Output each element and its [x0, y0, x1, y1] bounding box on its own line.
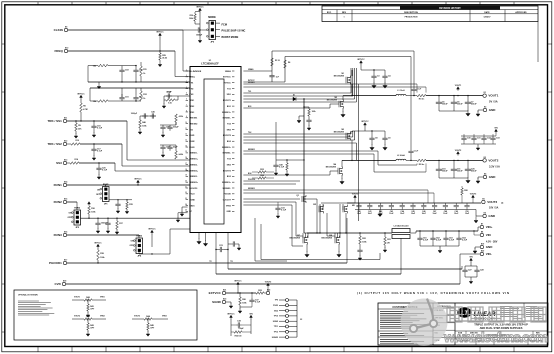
ground ss1 cap — [92, 133, 96, 138]
svg-text:E21: E21 — [223, 289, 226, 291]
svg-text:C9: C9 — [388, 137, 390, 139]
svg-text:R43: R43 — [90, 324, 94, 327]
svg-text:SGND: SGND — [212, 300, 222, 304]
svg-text:VOUT3: VOUT3 — [134, 316, 140, 318]
svg-text:C46: C46 — [166, 125, 170, 128]
svg-text:BSC0902NS: BSC0902NS — [327, 100, 338, 102]
capacitor cluster fb1 — [140, 115, 156, 117]
terminal E22 extvcc aux — [266, 291, 269, 294]
wire q1 to fets — [306, 198, 317, 200]
svg-text:PULSE SKIP / SYNC: PULSE SKIP / SYNC — [222, 30, 246, 33]
connector J1 pins — [286, 299, 289, 302]
svg-text:INTVCC: INTVCC — [357, 59, 365, 61]
svg-text:ECO: ECO — [327, 12, 332, 14]
svg-text:(1) OUTPUT 10V ONLY WHEN VIN >: (1) OUTPUT 10V ONLY WHEN VIN > 10V, OTHE… — [357, 291, 509, 295]
rail vbias riser 2 — [284, 57, 286, 83]
damp resistor R21 — [384, 232, 385, 233]
ground M7 — [306, 244, 308, 252]
svg-text:GND: GND — [488, 214, 496, 218]
terminal EXTVCC — [222, 291, 225, 294]
svg-text:VFB3: VFB3 — [162, 316, 167, 318]
jumper JP4 RUN3 — [136, 238, 143, 254]
ground vin caps — [439, 246, 441, 248]
resistor R22 ch3 — [359, 232, 360, 233]
resistor R11 ITH1 — [140, 66, 143, 76]
resistor R5 ss1 pullup — [80, 99, 82, 103]
svg-text:INTVCC: INTVCC — [196, 6, 204, 8]
svg-text:2.2uF: 2.2uF — [436, 240, 442, 242]
svg-text:INTVCC: INTVCC — [148, 228, 156, 230]
capacitor C23 under ic — [215, 249, 216, 250]
svg-text:TP11: TP11 — [274, 326, 278, 328]
capacitor C27 emi — [464, 266, 466, 268]
svg-text:LTC3859ALEF: LTC3859ALEF — [201, 61, 219, 65]
resistor R9 ss1 — [75, 120, 76, 121]
wire ch3 ic lines — [243, 180, 300, 182]
resistor R24 ch3 aux — [258, 177, 266, 180]
resistor R14 ss3 series — [67, 162, 70, 164]
svg-text:C33: C33 — [496, 137, 500, 139]
wire ss2 jog — [121, 144, 123, 166]
capacitor C18 ITH1 — [121, 66, 123, 68]
svg-text:BOOST2: BOOST2 — [223, 135, 231, 137]
ground at terminal out1 — [478, 109, 483, 111]
capacitor C22 run2 — [97, 218, 98, 219]
net flag vfb row — [495, 129, 498, 133]
svg-text:TG3: TG3 — [227, 159, 231, 161]
svg-text:12/04/17: 12/04/17 — [484, 16, 491, 19]
svg-text:TRK/SS1: TRK/SS1 — [189, 118, 198, 120]
transistor M1 BSC0902NS — [346, 76, 350, 85]
net flag intvcc ch2 — [364, 123, 367, 127]
ground ic pin 38 — [205, 237, 207, 241]
svg-text:BSC0902NS: BSC0902NS — [321, 238, 332, 240]
resistor R12 ITH2 — [140, 91, 143, 101]
ground M8 — [338, 244, 340, 252]
sense resistor R1 ch1 — [417, 94, 426, 97]
terminal FREQ — [64, 49, 67, 52]
svg-text:BOOST3: BOOST3 — [223, 170, 231, 172]
terminal VIN — [480, 233, 483, 236]
net flag VOUT1 — [457, 95, 458, 96]
svg-text:BSC0902NS: BSC0902NS — [326, 167, 337, 169]
terminal GND vin — [480, 245, 483, 248]
wire vin- to cvd rail — [460, 253, 480, 255]
svg-text:0.1uF: 0.1uF — [102, 170, 108, 172]
svg-text:SENSE3-: SENSE3- — [223, 188, 232, 190]
svg-text:TP10: TP10 — [274, 316, 278, 318]
svg-text:R9: R9 — [78, 125, 80, 127]
capacitor C38 100pF — [231, 324, 236, 326]
title block outline — [378, 303, 548, 345]
svg-text:17: 17 — [185, 163, 187, 165]
ground intvcc caps — [230, 334, 232, 336]
svg-text:C27: C27 — [468, 269, 472, 271]
svg-text:0.1uF: 0.1uF — [281, 210, 287, 212]
terminal SS3 — [63, 161, 66, 164]
sense wires ch2 — [243, 150, 378, 152]
svg-text:SENSE2: SENSE2 — [248, 149, 255, 151]
svg-text:R30: R30 — [190, 15, 193, 17]
terminal GND out2 — [483, 175, 486, 178]
wire out1 gnd rail — [439, 110, 468, 112]
svg-text:SGND2: SGND2 — [272, 337, 278, 339]
size dwg rev row — [455, 330, 548, 332]
terminal CLKIN — [64, 28, 67, 31]
optional circuits box — [14, 290, 197, 340]
wire CLKIN drop to PLLIN pin — [182, 30, 184, 71]
rail2 boost drop — [410, 57, 412, 151]
gate verticals ch3b — [339, 204, 341, 233]
svg-text:BSC0902NS: BSC0902NS — [289, 238, 300, 240]
wire ic bottom left rail — [215, 237, 217, 274]
svg-text:R36 100: R36 100 — [235, 336, 242, 338]
svg-text:www.elecfans.com: www.elecfans.com — [443, 329, 548, 345]
svg-text:INTVCC: INTVCC — [134, 178, 142, 180]
svg-text:SW3: SW3 — [227, 164, 231, 166]
svg-text:2.2uF: 2.2uF — [449, 240, 455, 242]
wire ch1 output — [426, 95, 483, 97]
svg-text:RUN2: RUN2 — [54, 200, 62, 204]
transistor M4 ch2 bottom — [338, 167, 342, 176]
resistor R16 run2 — [88, 218, 89, 219]
capacitor C7 out1 — [467, 95, 468, 96]
svg-text:R46: R46 — [142, 121, 146, 124]
terminal CVD — [62, 282, 65, 285]
vin input rail — [416, 230, 478, 232]
transistor M7 ch3 bottom a — [303, 236, 307, 245]
capacitor C33 mid — [275, 206, 280, 212]
resistor R3 rail — [271, 58, 274, 66]
svg-text:0.1uF: 0.1uF — [417, 88, 421, 90]
svg-text:VBIAS: VBIAS — [225, 70, 232, 73]
svg-text:E15: E15 — [64, 198, 67, 200]
wire RUN1 — [67, 184, 190, 186]
svg-text:FREQ: FREQ — [54, 49, 63, 53]
terminal VOUT3 — [482, 200, 485, 203]
svg-text:330uF: 330uF — [471, 171, 477, 173]
wire TRK/SS1 — [67, 120, 127, 122]
svg-text:15: 15 — [185, 151, 187, 153]
wire VIN bus vertical — [303, 99, 305, 233]
wire CVD long — [66, 283, 460, 285]
svg-text:TG1: TG1 — [248, 91, 251, 93]
terminal RUN3 — [63, 233, 66, 236]
svg-text:E23: E23 — [223, 298, 226, 300]
resistor R18 pgood pullup — [97, 262, 98, 263]
svg-text:GND1: GND1 — [189, 205, 195, 207]
svg-text:VOUT3: VOUT3 — [352, 193, 358, 195]
resistor R26 extvcc div — [239, 292, 240, 293]
wire L2 to sense — [406, 159, 417, 161]
terminal GND out1 — [483, 108, 486, 111]
terminal VOUT1 — [483, 94, 486, 97]
watermark text line1 — [447, 307, 462, 322]
wire FREQ — [68, 50, 175, 52]
svg-text:E3: E3 — [484, 157, 486, 159]
svg-text:E17: E17 — [64, 259, 67, 261]
ground bus arrow — [299, 115, 304, 117]
wire ch3 out rail to caps — [347, 202, 481, 204]
capacitor C3 ch1 — [373, 69, 374, 70]
svg-text:PRODUCTION: PRODUCTION — [405, 17, 418, 19]
svg-text:23: 23 — [185, 198, 187, 200]
svg-text:PGOOD: PGOOD — [224, 194, 232, 196]
svg-text:TP12: TP12 — [274, 332, 278, 334]
resistor R29 36.5k on FREQ — [159, 50, 160, 51]
terminal PGOOD1 — [63, 261, 66, 264]
svg-text:J2: J2 — [300, 319, 302, 321]
capacitor C39 on bus — [308, 116, 310, 118]
svg-text:SS3: SS3 — [56, 161, 62, 165]
capacitor C9 ch2 — [384, 131, 386, 136]
wire cap to jumper — [202, 29, 209, 31]
ground at terminal out2 — [478, 176, 483, 178]
rail1 boost drop — [413, 51, 415, 88]
wire TG2 gate lines ch2 — [243, 133, 351, 135]
net flag vout3 right — [472, 195, 475, 199]
svg-text:VIN: VIN — [486, 233, 491, 237]
svg-text:L3 XAL1010-223: L3 XAL1010-223 — [394, 225, 409, 228]
svg-text:470pF: 470pF — [166, 90, 172, 93]
svg-text:SENSE3-: SENSE3- — [189, 176, 198, 178]
capacitor C13 ITH2 — [133, 95, 138, 101]
svg-text:SENSE1-: SENSE1- — [223, 118, 232, 120]
ground ic pin 37 — [198, 237, 200, 239]
wire VBIAS pin — [243, 70, 272, 72]
optional note text — [18, 300, 39, 302]
svg-text:1000pF: 1000pF — [131, 113, 138, 115]
capacitor C25 out2 — [467, 160, 468, 161]
svg-text:M6: M6 — [352, 205, 355, 207]
inductor L3 XAL1010 box — [392, 229, 410, 233]
sense wires ch3 — [243, 189, 428, 191]
svg-text:BG1: BG1 — [248, 106, 252, 108]
net flag pgood pullup INTVCC — [97, 244, 100, 248]
wire run1 parts stub — [109, 199, 132, 201]
svg-text:DATE: DATE — [484, 11, 490, 14]
svg-text:PGOOD3: PGOOD3 — [248, 179, 255, 181]
svg-text:TP2: TP2 — [230, 261, 233, 263]
wire sw3 node — [307, 232, 392, 234]
svg-text:R3 10: R3 10 — [275, 60, 280, 62]
wire rail B rise — [400, 238, 402, 274]
IC U1 left pins — [186, 70, 188, 72]
IC U1 exposed pad — [204, 79, 224, 224]
svg-text:TG2: TG2 — [227, 123, 231, 125]
title separator — [455, 320, 548, 322]
ground ss3 cap — [97, 175, 101, 180]
svg-text:SENSE3: SENSE3 — [248, 188, 255, 190]
svg-text:EXTVCC: EXTVCC — [223, 77, 231, 79]
svg-text:SENSE2-: SENSE2- — [189, 164, 198, 166]
svg-text:RUN3: RUN3 — [136, 236, 143, 238]
wire BG1 to M2 — [243, 107, 330, 109]
svg-text:PGOOD1: PGOOD1 — [49, 261, 62, 265]
svg-text:INTVCC: INTVCC — [224, 83, 232, 85]
wire extvcc — [226, 292, 256, 294]
wire bottom rail A — [228, 268, 462, 270]
svg-text:RUN1: RUN1 — [189, 135, 195, 137]
svg-text:TRK/SS2: TRK/SS2 — [189, 123, 197, 125]
wire out2 gnd rail — [439, 177, 468, 179]
svg-text:100uF: 100uF — [457, 171, 463, 173]
wire SW2 node — [342, 159, 396, 161]
capacitor C5 out1 — [438, 95, 439, 96]
net INTVCC flag top — [199, 8, 202, 12]
svg-text:25: 25 — [185, 210, 187, 212]
svg-text:R16: R16 — [91, 208, 95, 210]
resistor R30 100k — [194, 14, 197, 21]
svg-text:E10: E10 — [65, 47, 68, 49]
customer notice cell — [432, 303, 434, 345]
svg-text:4.5V - 38V: 4.5V - 38V — [486, 240, 498, 243]
svg-text:12: 12 — [185, 134, 187, 136]
svg-text:TP1: TP1 — [209, 261, 212, 263]
svg-text:RUN3: RUN3 — [189, 147, 194, 149]
net flag run3 pullup — [151, 230, 154, 234]
svg-text:16: 16 — [185, 157, 187, 159]
ground ITH3 — [163, 100, 165, 104]
svg-text:INTVCC: INTVCC — [227, 313, 235, 315]
M7 gate bundle — [302, 233, 304, 238]
svg-text:RUN1: RUN1 — [54, 183, 62, 187]
terminal RUN2 — [63, 200, 66, 203]
svg-text:VOUT3: VOUT3 — [470, 193, 476, 195]
svg-text:FREQ: FREQ — [189, 77, 195, 79]
ground vfb row — [477, 144, 479, 146]
svg-text:RUN3: RUN3 — [54, 233, 62, 237]
LT logo — [457, 307, 496, 320]
wire ITH2 bus — [90, 87, 190, 89]
svg-text:E19: E19 — [481, 243, 484, 245]
ground mode cluster — [199, 30, 201, 38]
svg-text:VOUT2: VOUT2 — [265, 281, 271, 283]
frame zone ticks — [37, 2, 39, 5]
svg-text:E5: E5 — [482, 198, 484, 200]
terminal TRK/SS2 — [63, 142, 66, 145]
transistor M2 ch1 bottom — [339, 100, 343, 109]
capacitor C11 out2 — [453, 160, 454, 161]
svg-text:TG2: TG2 — [248, 132, 251, 134]
svg-text:ITH3: ITH3 — [189, 94, 193, 96]
resistor R17 run2 — [116, 218, 117, 219]
capacitor row vfb2 — [461, 135, 496, 137]
jumper JP1 RUN1 — [103, 187, 110, 202]
wire CLKIN to cap — [183, 29, 196, 31]
wire PGOOD1 — [67, 262, 347, 264]
svg-text:GND: GND — [226, 211, 231, 213]
svg-text:GND: GND — [489, 108, 497, 112]
resistor R20 vfb3 — [461, 188, 464, 195]
svg-text:100k: 100k — [312, 111, 316, 113]
svg-text:SENSE1+: SENSE1+ — [189, 159, 199, 161]
capacitor C4 ch1 — [384, 70, 386, 74]
capacitor C17 ss2 — [93, 143, 94, 144]
svg-text:VFB3: VFB3 — [189, 112, 194, 114]
svg-text:E9: E9 — [65, 26, 67, 28]
wire vout3 bottom rail — [355, 209, 476, 211]
svg-text:SENSE1-: SENSE1- — [189, 153, 198, 155]
svg-text:R4: R4 — [288, 61, 290, 64]
scale date sheet row — [455, 337, 548, 339]
svg-text:VOUT2: VOUT2 — [488, 159, 498, 163]
capacitor C32 run2 — [107, 218, 108, 219]
svg-text:R17: R17 — [119, 223, 123, 225]
resistor R10 ss2 series — [67, 143, 71, 145]
ground ITH bus left — [87, 66, 89, 82]
net flag intvcc ch1 — [360, 61, 363, 65]
net flag VOUT2 — [457, 160, 458, 161]
capacitor cluster fb2 — [160, 124, 176, 126]
IC U1 bottom pins — [198, 233, 200, 238]
svg-text:ITH2: ITH2 — [189, 88, 193, 90]
svg-text:MODE: MODE — [208, 16, 216, 19]
svg-text:10: 10 — [185, 122, 187, 124]
capacitor C26 ch3 — [357, 248, 362, 254]
resistor R23 ch3 aux — [258, 171, 266, 174]
svg-text:FCM: FCM — [222, 23, 227, 26]
svg-text:E2: E2 — [484, 106, 486, 108]
rail intvcc riser — [271, 51, 273, 71]
svg-text:2.2uF: 2.2uF — [423, 240, 429, 242]
svg-text:INTVCC: INTVCC — [77, 93, 85, 95]
wire ch3 gates — [243, 198, 300, 200]
capacitor C37 extvcc — [251, 292, 252, 293]
ground sgnd — [226, 301, 231, 303]
capacitor C12 ITH1 hf — [135, 66, 137, 68]
wire vin bus to ch3 — [304, 232, 320, 234]
terminal RUN1 — [63, 183, 66, 186]
capacitor C6 out1 — [453, 95, 454, 96]
sense wires ch1 — [243, 83, 417, 85]
svg-text:0.1uF: 0.1uF — [414, 150, 418, 152]
svg-text:EXTVCC: EXTVCC — [209, 291, 222, 295]
svg-text:SGND: SGND — [273, 321, 279, 323]
svg-text:BSC0902NS: BSC0902NS — [334, 76, 345, 78]
wire M1 drain — [351, 70, 353, 76]
wire ic bottom right rail — [227, 237, 229, 269]
ground ic left aux 1 — [182, 206, 188, 208]
wire rail A rise — [461, 266, 463, 269]
svg-text:C19: C19 — [125, 97, 129, 99]
svg-text:SGND: SGND — [189, 200, 195, 202]
resistor R25 extvcc series — [256, 292, 264, 295]
transistor M6 ch3 top b — [343, 205, 347, 214]
svg-text:3.3V / 5A: 3.3V / 5A — [489, 165, 500, 169]
svg-text:TRK / SS2: TRK / SS2 — [47, 142, 62, 146]
svg-text:0.1uF: 0.1uF — [279, 167, 285, 169]
svg-text:L1 10uH: L1 10uH — [397, 90, 405, 92]
watermark logo disc — [401, 299, 448, 346]
net flag INTVCC freq — [159, 33, 162, 37]
IC U1 LTC3859ALEF outline — [190, 67, 241, 233]
svg-text:E1: E1 — [484, 92, 486, 94]
svg-text:L2 6.8uH: L2 6.8uH — [397, 155, 405, 157]
diode D1 boost feed — [293, 97, 296, 101]
wire M3 drain — [351, 131, 353, 132]
terminal VIN+ — [480, 225, 483, 228]
ground ss2 cap — [92, 156, 96, 161]
wire RUN2 — [67, 201, 77, 203]
svg-text:E16: E16 — [64, 231, 67, 233]
svg-text:SENSE1: SENSE1 — [248, 82, 255, 84]
wire ch3 top rail — [321, 202, 355, 204]
ground under ic — [237, 246, 241, 251]
svg-text:BURST MODE: BURST MODE — [222, 36, 239, 39]
svg-text:R22: R22 — [362, 238, 366, 240]
gate bundle verticals ch2 — [350, 131, 352, 134]
